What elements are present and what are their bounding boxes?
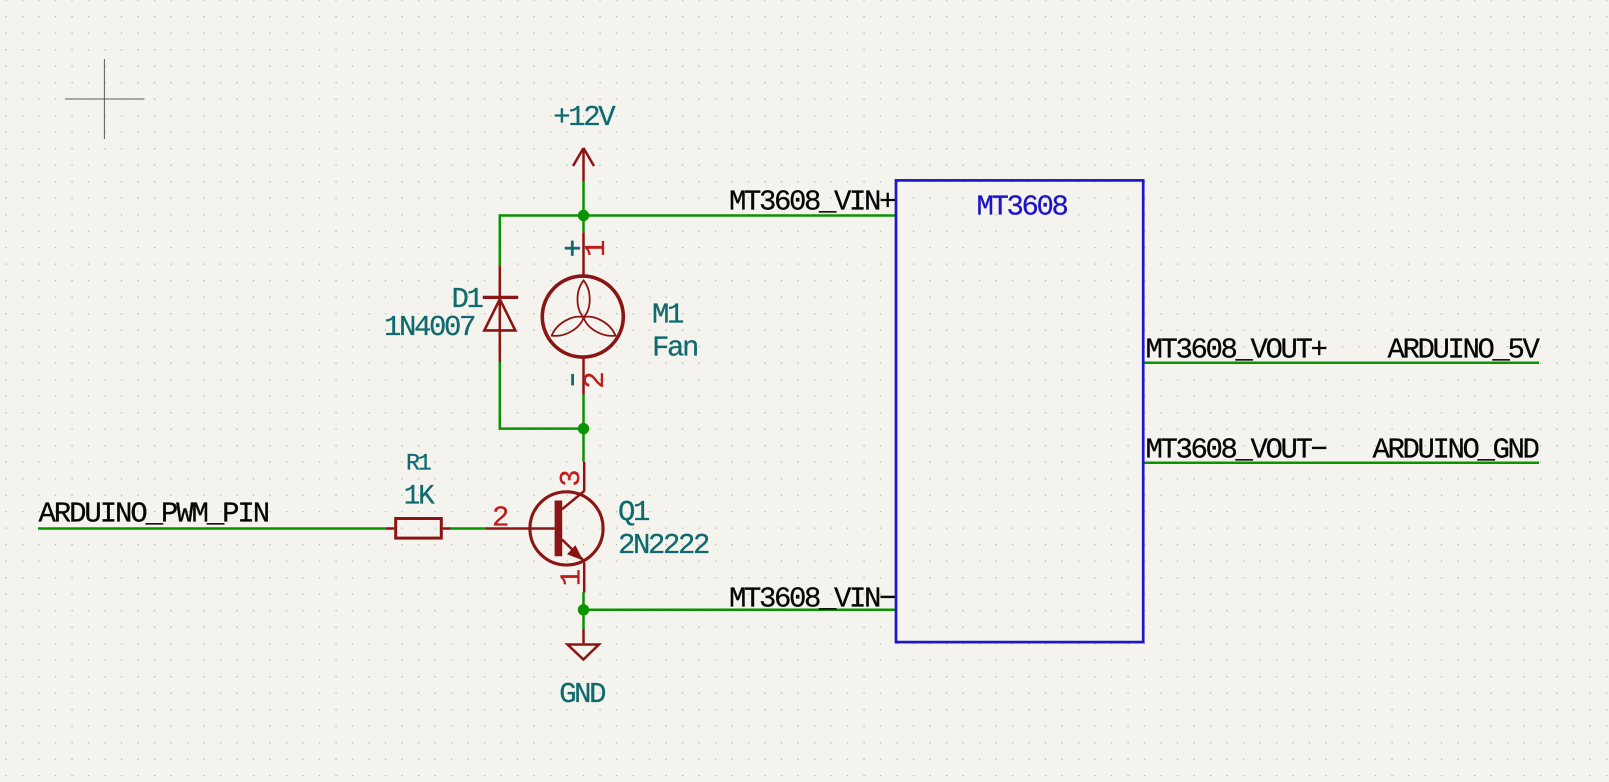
wire D1 bottom to corner xyxy=(499,362,502,430)
junction at emitter xyxy=(578,604,589,615)
fan motor M1 xyxy=(542,232,623,394)
wire +12V to junction xyxy=(582,181,585,232)
svg-text:ARDUINO_GND: ARDUINO_GND xyxy=(1372,434,1538,467)
fan pin 1 plus mark xyxy=(565,241,580,256)
wire fan bottom to collector xyxy=(582,395,585,463)
ground symbol xyxy=(568,629,599,660)
junction at +12V rail xyxy=(578,210,589,221)
svg-text:ARDUINO_PWM_PIN: ARDUINO_PWM_PIN xyxy=(39,498,269,531)
svg-text:2N2222: 2N2222 xyxy=(618,529,709,562)
resistor R1 xyxy=(386,519,450,539)
svg-text:1: 1 xyxy=(555,569,588,586)
svg-text:3: 3 xyxy=(555,469,588,486)
wire R1 to Q1 base xyxy=(450,527,486,530)
transistor Q1 xyxy=(486,462,603,592)
svg-text:+12V: +12V xyxy=(553,101,616,134)
junction at fan bottom xyxy=(578,423,589,434)
hierarchical sheet MT3608 xyxy=(896,180,1143,642)
origin crosshair marker xyxy=(65,59,145,139)
svg-text:1N4007: 1N4007 xyxy=(384,311,475,344)
svg-text:MT3608_VIN−: MT3608_VIN− xyxy=(729,583,895,616)
svg-text:MT3608_VOUT−: MT3608_VOUT− xyxy=(1146,434,1327,467)
wire left branch down to D1 xyxy=(499,214,502,266)
svg-text:M1: M1 xyxy=(652,298,683,331)
svg-text:ARDUINO_5V: ARDUINO_5V xyxy=(1387,334,1540,367)
wire horizontal VIN+ rail xyxy=(500,214,896,217)
svg-text:2: 2 xyxy=(579,371,612,388)
wire MT3608_VOUT+ xyxy=(1143,362,1539,365)
wire horizontal VIN- rail xyxy=(584,609,896,612)
diode D1 xyxy=(483,266,518,362)
svg-text:GND: GND xyxy=(559,678,605,711)
svg-text:R1: R1 xyxy=(406,450,431,476)
wire corner to junction 2 xyxy=(499,427,584,430)
power symbol +12V xyxy=(573,148,594,182)
fan pin 2 minus mark xyxy=(571,374,574,386)
svg-text:MT3608_VIN+: MT3608_VIN+ xyxy=(729,186,895,219)
svg-text:Q1: Q1 xyxy=(618,496,649,529)
wire MT3608_VOUT- xyxy=(1143,462,1539,465)
svg-text:1K: 1K xyxy=(404,481,436,512)
svg-text:2: 2 xyxy=(492,502,509,535)
svg-text:1: 1 xyxy=(580,240,613,257)
wire ARDUINO_PWM_PIN to R1 xyxy=(38,527,387,530)
svg-text:MT3608: MT3608 xyxy=(977,191,1068,224)
svg-text:MT3608_VOUT+: MT3608_VOUT+ xyxy=(1146,334,1327,367)
svg-text:Fan: Fan xyxy=(652,332,697,365)
wire emitter to junction 3 xyxy=(582,592,585,629)
